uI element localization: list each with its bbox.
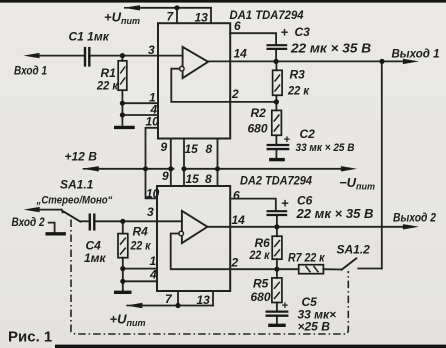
svg-text:C1 1мк: C1 1мк [69, 30, 110, 44]
svg-text:15: 15 [186, 172, 200, 186]
svg-text:3: 3 [147, 205, 154, 219]
svg-text:15: 15 [185, 142, 199, 156]
svg-text:R4: R4 [133, 225, 149, 239]
svg-text:1: 1 [150, 254, 157, 268]
svg-text:6: 6 [233, 189, 240, 203]
svg-text:22 мк × 35 В: 22 мк × 35 В [295, 207, 373, 221]
svg-text:+12 В: +12 В [65, 150, 98, 164]
svg-text:9: 9 [162, 169, 169, 183]
svg-text:SA1.1: SA1.1 [60, 178, 94, 192]
svg-text:33 мк × 25 В: 33 мк × 25 В [296, 142, 355, 154]
svg-text:13: 13 [195, 11, 209, 25]
svg-text:C3: C3 [295, 25, 311, 39]
svg-text:22 мк × 35 В: 22 мк × 35 В [290, 42, 371, 56]
svg-text:Вход 2: Вход 2 [12, 215, 45, 229]
svg-text:10: 10 [146, 187, 160, 201]
svg-text:+: + [281, 25, 289, 40]
svg-text:+: + [282, 300, 289, 312]
svg-text:13: 13 [197, 293, 211, 307]
svg-text:DA2 TDA7294: DA2 TDA7294 [240, 174, 312, 188]
svg-text:Выход 2: Выход 2 [393, 211, 436, 225]
svg-text:SA1.2: SA1.2 [337, 243, 371, 257]
svg-text:22 к: 22 к [96, 79, 119, 93]
svg-text:680: 680 [251, 290, 271, 304]
svg-text:8: 8 [205, 172, 212, 186]
svg-text:2: 2 [231, 87, 239, 101]
svg-text:C6: C6 [297, 194, 313, 208]
svg-text:„Стерео/Моно“: „Стерео/Моно“ [36, 195, 113, 207]
svg-text:22 к: 22 к [249, 248, 271, 262]
svg-text:680: 680 [248, 122, 268, 136]
svg-text:6: 6 [234, 19, 241, 33]
svg-text:1мк: 1мк [84, 251, 107, 265]
svg-text:14: 14 [234, 47, 248, 61]
svg-text:9: 9 [161, 140, 168, 154]
svg-text:Выход 1: Выход 1 [392, 47, 440, 61]
svg-text:2: 2 [231, 256, 239, 270]
svg-text:Вход 1: Вход 1 [14, 64, 47, 78]
svg-text:R7 22 к: R7 22 к [288, 251, 325, 265]
svg-text:14: 14 [232, 213, 246, 227]
svg-text:10: 10 [146, 115, 160, 129]
svg-text:×25 В: ×25 В [298, 320, 331, 334]
svg-text:+: + [284, 134, 291, 146]
svg-text:22 к: 22 к [287, 84, 310, 98]
svg-text:R5: R5 [253, 277, 269, 291]
svg-text:8: 8 [206, 142, 213, 156]
svg-text:3: 3 [148, 43, 155, 57]
svg-text:4: 4 [149, 268, 157, 282]
svg-text:+: + [281, 196, 289, 211]
svg-text:22 к: 22 к [130, 239, 152, 253]
svg-text:Рис. 1: Рис. 1 [8, 329, 52, 346]
svg-text:R3: R3 [290, 68, 306, 82]
svg-text:R2: R2 [251, 106, 267, 120]
svg-text:C2: C2 [300, 127, 316, 141]
